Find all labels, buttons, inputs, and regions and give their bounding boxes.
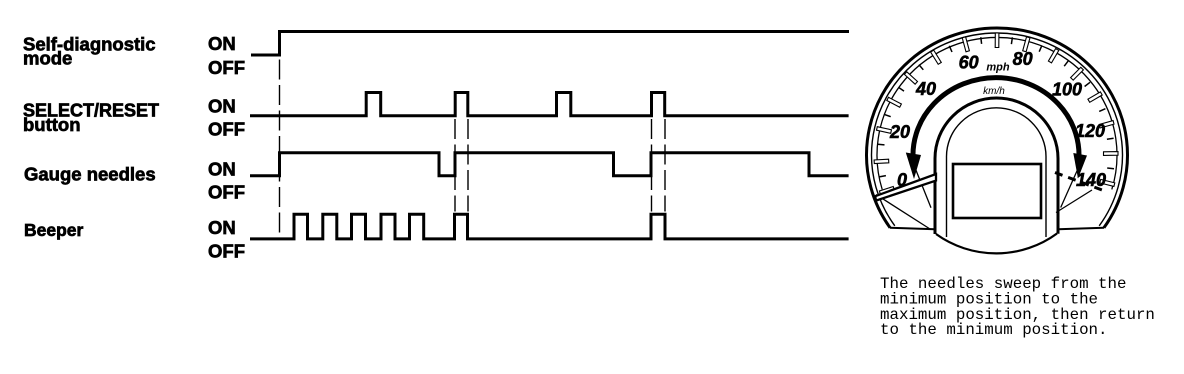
svg-text:to the minimum position.: to the minimum position. xyxy=(880,321,1108,339)
svg-text:Gauge needles: Gauge needles xyxy=(24,164,156,185)
svg-text:120: 120 xyxy=(1075,121,1105,141)
svg-text:140: 140 xyxy=(1076,170,1106,190)
svg-text:OFF: OFF xyxy=(208,240,245,261)
svg-text:60: 60 xyxy=(959,53,979,73)
svg-text:button: button xyxy=(23,114,81,135)
svg-text:40: 40 xyxy=(915,79,936,99)
svg-text:km/h: km/h xyxy=(983,86,1005,97)
svg-text:ON: ON xyxy=(208,217,236,238)
svg-text:OFF: OFF xyxy=(208,119,245,140)
svg-text:ON: ON xyxy=(208,33,236,54)
svg-text:0: 0 xyxy=(897,170,907,190)
svg-text:80: 80 xyxy=(1013,49,1033,69)
svg-text:OFF: OFF xyxy=(208,57,245,78)
svg-text:100: 100 xyxy=(1052,80,1082,100)
svg-text:OFF: OFF xyxy=(208,182,245,203)
svg-text:20: 20 xyxy=(889,122,910,142)
svg-text:ON: ON xyxy=(208,159,236,180)
svg-text:mode: mode xyxy=(23,47,72,68)
svg-text:Beeper: Beeper xyxy=(24,220,84,240)
svg-text:ON: ON xyxy=(208,96,236,117)
svg-text:mph: mph xyxy=(986,62,1010,74)
